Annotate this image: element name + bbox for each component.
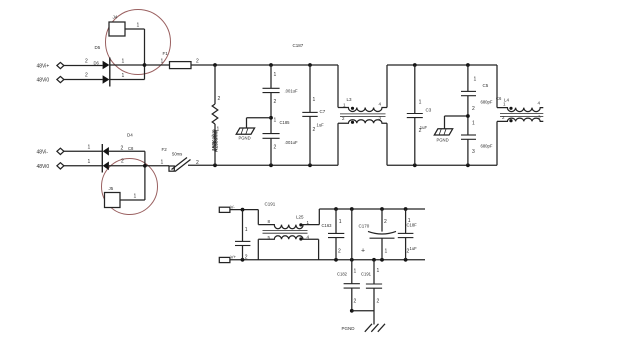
svg-text:2: 2 <box>472 106 475 112</box>
svg-text:.001uF: .001uF <box>285 140 298 145</box>
svg-text:V+: V+ <box>231 254 237 259</box>
svg-text:PGND: PGND <box>239 136 251 141</box>
svg-text:1: 1 <box>339 219 342 225</box>
svg-text:1: 1 <box>88 145 91 151</box>
svg-text:1: 1 <box>137 23 140 29</box>
svg-text:1: 1 <box>385 249 388 255</box>
svg-text:2: 2 <box>338 249 341 255</box>
svg-text:2: 2 <box>407 249 410 255</box>
svg-text:C18F: C18F <box>407 223 418 228</box>
svg-text:2: 2 <box>377 299 380 305</box>
svg-text:1: 1 <box>377 268 380 274</box>
svg-text:1: 1 <box>161 160 164 166</box>
svg-text:C170: C170 <box>359 224 370 229</box>
svg-text:1: 1 <box>161 59 164 65</box>
svg-text:1: 1 <box>474 77 477 83</box>
svg-text:48Vi-: 48Vi- <box>37 149 49 155</box>
svg-text:2: 2 <box>274 145 277 151</box>
svg-text:1: 1 <box>313 97 316 103</box>
svg-text:PGND: PGND <box>437 138 449 143</box>
svg-text:C191: C191 <box>265 202 276 207</box>
svg-text:48Vi0: 48Vi0 <box>37 77 50 83</box>
svg-text:48Vi0: 48Vi0 <box>37 164 50 170</box>
svg-text:48Vi+: 48Vi+ <box>37 63 50 69</box>
svg-text:C187: C187 <box>293 43 304 48</box>
svg-text:2: 2 <box>85 73 88 79</box>
svg-text:.001uF: .001uF <box>285 89 298 94</box>
svg-text:C3: C3 <box>426 108 432 113</box>
svg-text:C185: C185 <box>280 120 291 125</box>
svg-text:1uF: 1uF <box>410 246 418 251</box>
svg-text:1: 1 <box>274 118 277 124</box>
svg-text:3: 3 <box>472 149 475 155</box>
svg-text:1: 1 <box>122 73 125 79</box>
svg-text:2: 2 <box>121 159 124 165</box>
svg-text:2: 2 <box>218 96 221 102</box>
svg-text:2: 2 <box>85 59 88 65</box>
svg-text:1: 1 <box>354 269 357 275</box>
svg-text:J4: J4 <box>113 15 118 20</box>
svg-text:2: 2 <box>419 128 422 134</box>
svg-text:150Kohm: 150Kohm <box>211 129 217 151</box>
svg-text:C7: C7 <box>320 109 326 114</box>
svg-text:C182: C182 <box>337 272 348 277</box>
svg-text:1: 1 <box>419 100 422 106</box>
svg-text:2: 2 <box>354 299 357 305</box>
svg-text:C6: C6 <box>496 96 502 101</box>
svg-text:J5: J5 <box>109 186 114 191</box>
svg-text:L3: L3 <box>347 97 353 102</box>
svg-text:2: 2 <box>245 254 248 260</box>
svg-text:C8: C8 <box>128 146 134 151</box>
svg-text:2: 2 <box>196 59 199 65</box>
svg-text:1uF: 1uF <box>317 123 325 128</box>
svg-text:1: 1 <box>122 59 125 65</box>
svg-text:2: 2 <box>196 160 199 166</box>
svg-text:+: + <box>361 248 365 255</box>
svg-text:1: 1 <box>88 159 91 165</box>
svg-text:D6: D6 <box>94 61 100 66</box>
svg-text:C5: C5 <box>483 83 489 88</box>
svg-text:D4: D4 <box>127 133 133 138</box>
svg-text:680pF: 680pF <box>481 100 493 105</box>
svg-text:2: 2 <box>121 146 124 152</box>
svg-text:50ms: 50ms <box>172 152 182 157</box>
svg-text:PGND: PGND <box>342 326 356 331</box>
svg-text:L25: L25 <box>296 215 304 220</box>
svg-text:1: 1 <box>472 121 475 127</box>
svg-text:2: 2 <box>384 219 387 225</box>
svg-text:C191: C191 <box>361 272 372 277</box>
svg-text:1: 1 <box>134 194 137 200</box>
svg-text:2: 2 <box>313 127 316 133</box>
svg-text:V-: V- <box>231 205 236 210</box>
svg-text:F1: F1 <box>163 51 169 56</box>
svg-text:C163: C163 <box>322 223 333 228</box>
svg-text:F2: F2 <box>162 147 168 152</box>
svg-text:680pF: 680pF <box>481 144 493 149</box>
svg-text:2: 2 <box>274 99 277 105</box>
svg-text:1: 1 <box>274 72 277 78</box>
svg-text:D5: D5 <box>95 45 101 50</box>
svg-text:1: 1 <box>245 227 248 233</box>
